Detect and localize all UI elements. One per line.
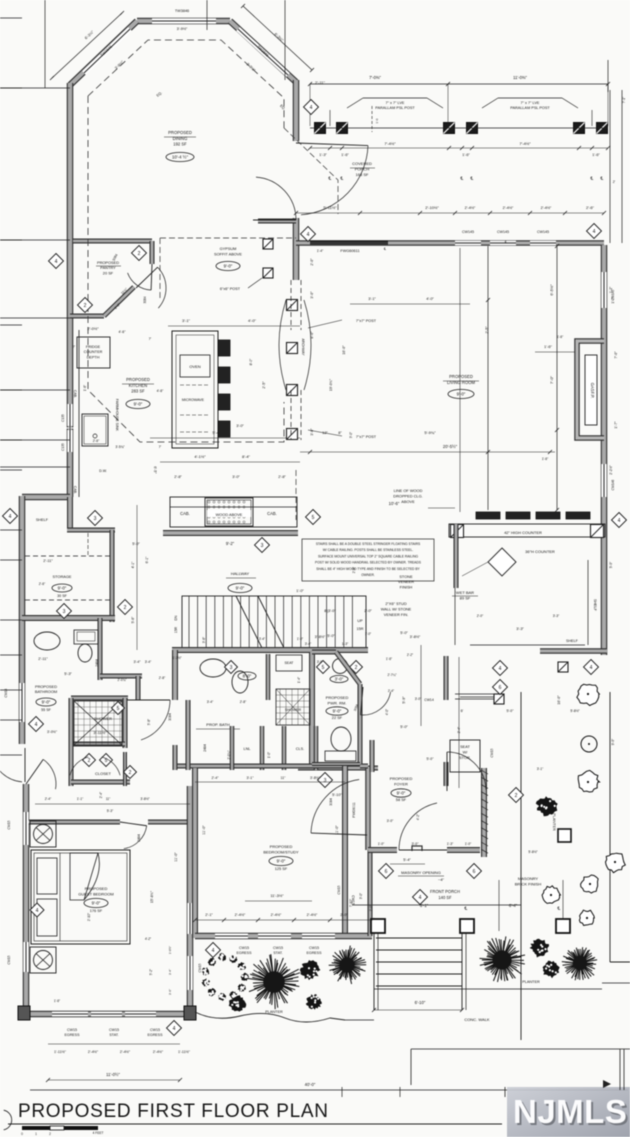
svg-text:9'-0": 9'-0" [224,264,233,269]
svg-text:3'-3": 3'-3" [516,627,524,631]
svg-text:6: 6 [473,869,476,875]
svg-text:COUNTER: COUNTER [84,350,103,354]
svg-text:125 SF: 125 SF [275,866,288,871]
svg-text:36"H COUNTER: 36"H COUNTER [525,549,555,554]
svg-text:LINE OF WOOD: LINE OF WOOD [394,488,423,493]
svg-text:5'-8½": 5'-8½" [570,709,580,713]
svg-text:3'-6": 3'-6" [168,989,172,995]
svg-text:OVEN: OVEN [189,364,200,369]
svg-text:9'-0": 9'-0" [277,859,286,864]
svg-text:1'-3½": 1'-3½" [172,656,182,660]
svg-text:2'-4½": 2'-4½" [235,913,246,917]
svg-text:9'-0": 9'-0" [42,700,51,705]
svg-text:1'-6": 1'-6" [83,385,87,391]
svg-text:GUEST BEDROOM: GUEST BEDROOM [78,892,114,897]
svg-text:3'-4": 3'-4" [259,637,265,641]
svg-text:2'-6": 2'-6" [39,582,46,586]
svg-text:1'-0": 1'-0" [465,842,472,846]
svg-text:1'-11½": 1'-11½" [54,1050,67,1054]
svg-text:SOFFIT ABOVE: SOFFIT ABOVE [214,251,242,256]
svg-text:5'-9": 5'-9" [402,696,406,704]
svg-text:1'-4": 1'-4" [297,677,301,683]
svg-text:FRONT PORCH: FRONT PORCH [430,889,460,894]
svg-text:PWR. RM.: PWR. RM. [328,700,347,705]
svg-text:LIVING ROOM: LIVING ROOM [447,380,475,385]
svg-text:5'-3": 5'-3" [64,672,72,676]
svg-text:CW145: CW145 [497,230,509,234]
svg-text:CW15: CW15 [490,748,494,757]
svg-text:3'-0": 3'-0" [349,432,353,438]
svg-text:CW145: CW145 [537,230,549,234]
svg-text:5'-8½": 5'-8½" [528,850,538,854]
svg-text:LNL: LNL [244,747,251,751]
svg-text:2'-8": 2'-8" [174,475,182,479]
svg-text:MASONRY: MASONRY [518,876,538,881]
svg-text:7"x7" POST: 7"x7" POST [356,319,377,323]
svg-text:2: 2 [515,793,518,799]
svg-text:PROPOSED: PROPOSED [270,844,293,849]
svg-text:20 SF: 20 SF [103,270,114,275]
svg-text:STAT.: STAT. [273,951,282,955]
svg-text:7"x7" POST: 7"x7" POST [356,435,377,439]
svg-text:4: 4 [36,908,39,914]
svg-text:40'-0": 40'-0" [305,1082,316,1087]
svg-text:2'-4½": 2'-4½" [271,913,282,917]
svg-text:3'-0": 3'-0" [310,428,314,436]
svg-text:SHELF: SHELF [566,639,579,643]
svg-text:1'-6": 1'-6" [341,153,349,157]
svg-text:4'-0": 4'-0" [426,297,434,301]
svg-text:5'-0": 5'-0" [400,725,408,729]
svg-text:CW14: CW14 [424,698,434,702]
svg-text:TW3846: TW3846 [175,9,189,13]
svg-text:EGRESS: EGRESS [307,951,323,955]
svg-text:PORCH: PORCH [355,167,370,172]
svg-text:OWNER.: OWNER. [361,573,375,577]
svg-text:CLS.: CLS. [296,747,304,751]
svg-text:3'-8½": 3'-8½" [310,776,321,780]
svg-text:1'-0": 1'-0" [297,637,303,641]
svg-text:1'-0": 1'-0" [296,589,304,593]
svg-text:3'-4": 3'-4" [168,969,172,975]
svg-text:STORAGE: STORAGE [53,574,72,579]
svg-text:4: 4 [499,666,502,672]
svg-text:3'-0": 3'-0" [415,697,422,701]
svg-text:4'-6": 4'-6" [119,330,127,334]
svg-text:PROP. BATH: PROP. BATH [206,722,230,727]
svg-text:5'-8": 5'-8" [147,719,151,725]
svg-text:2: 2 [49,1132,51,1136]
svg-text:PROPOSED: PROPOSED [326,695,349,700]
svg-text:WALL W/ STONE: WALL W/ STONE [381,607,412,612]
svg-text:2: 2 [124,605,127,611]
svg-text:15'-8¾": 15'-8¾" [150,890,154,903]
svg-text:DINING: DINING [173,136,188,141]
svg-text:11'-0½": 11'-0½" [106,1072,120,1077]
svg-text:D.W.: D.W. [99,469,107,473]
svg-text:9'-0": 9'-0" [92,901,101,906]
svg-text:KITCHEN: KITCHEN [129,383,147,388]
svg-text:5: 5 [322,665,325,671]
svg-text:2'-4": 2'-4" [99,792,103,798]
svg-text:11'-0": 11'-0" [335,825,339,835]
svg-text:15R: 15R [174,626,178,633]
svg-text:CLOSET: CLOSET [95,771,112,776]
svg-text:CW15: CW15 [198,963,202,972]
svg-text:4'-2": 4'-2" [416,814,420,820]
svg-text:PLANTER: PLANTER [522,980,540,984]
svg-text:5'-4": 5'-4" [403,858,411,862]
svg-text:4'-6": 4'-6" [157,389,165,393]
svg-text:3'-4": 3'-4" [207,700,214,704]
svg-text:3'-3": 3'-3" [553,614,560,618]
svg-text:3'-0": 3'-0" [236,424,244,428]
svg-text:7" x 7" LVE: 7" x 7" LVE [521,101,540,105]
svg-text:15R: 15R [357,627,364,631]
svg-text:3084: 3084 [143,296,147,303]
svg-text:CW146: CW146 [611,479,615,490]
svg-text:2: 2 [88,758,91,764]
svg-text:5'-9¾": 5'-9¾" [424,430,436,435]
svg-text:7': 7' [73,345,76,349]
svg-text:FWG6011: FWG6011 [352,802,356,817]
svg-text:22 SF: 22 SF [332,715,343,720]
svg-text:2'-4": 2'-4" [388,689,394,693]
svg-text:192 SF: 192 SF [173,142,187,147]
svg-text:1'-6": 1'-6" [542,457,549,461]
svg-text:3'-0": 3'-0" [310,291,314,299]
svg-text:9'-0": 9'-0" [611,738,615,745]
svg-text:2'-11": 2'-11" [315,80,325,85]
svg-text:5'-3": 5'-3" [107,809,114,813]
svg-text:3'-5¾": 3'-5¾" [115,445,125,449]
svg-text:16'-0": 16'-0" [557,695,561,705]
svg-text:8'|3'-0": 8'|3'-0" [324,609,336,613]
svg-text:6: 6 [385,869,388,875]
svg-text:2484: 2484 [95,659,99,667]
svg-text:2484: 2484 [137,834,141,842]
svg-text:4: 4 [212,948,215,954]
svg-text:1'-4": 1'-4" [317,249,324,253]
svg-text:6': 6' [461,709,464,713]
svg-text:6'-4": 6'-4" [509,903,518,908]
svg-text:168 SF: 168 SF [356,172,369,177]
svg-text:HALLWAY: HALLWAY [231,571,250,576]
svg-text:FARMHOUSE SINK: FARMHOUSE SINK [115,399,119,432]
svg-text:GYPSUM: GYPSUM [220,246,237,251]
svg-text:5'-6": 5'-6" [131,616,135,624]
svg-text:8'-0": 8'-0" [310,331,314,339]
svg-text:SHELF: SHELF [36,518,49,522]
svg-text:DN: DN [174,615,178,620]
svg-text:1'-7": 1'-7" [614,421,618,429]
svg-text:SHOWER: SHOWER [285,708,302,712]
svg-text:2'-0¾": 2'-0¾" [117,678,126,682]
svg-text:PLANTER: PLANTER [265,1010,283,1014]
svg-text:9'-0": 9'-0" [397,791,406,796]
svg-text:2'-0": 2'-0" [310,258,314,266]
svg-text:CW145: CW145 [611,289,615,300]
svg-text:7'-4½": 7'-4½" [384,141,396,146]
svg-text:3'-11½": 3'-11½" [93,730,107,735]
svg-text:CAB.: CAB. [73,390,77,398]
svg-text:3'-9½": 3'-9½" [177,27,188,31]
svg-text:MASONRY OPENING: MASONRY OPENING [401,870,441,875]
svg-text:8'-0": 8'-0" [249,358,253,366]
svg-text:BRICK FINISH: BRICK FINISH [515,882,542,887]
svg-text:3'-0½": 3'-0½" [47,730,58,734]
svg-text:1'-0": 1'-0" [378,842,385,846]
svg-text:FINISH: FINISH [400,584,413,589]
svg-text:0: 0 [21,1132,23,1136]
svg-text:2'-4½": 2'-4½" [307,913,318,917]
svg-text:CW15: CW15 [150,1028,160,1032]
svg-text:PROPOSED: PROPOSED [168,130,192,135]
svg-text:7': 7' [149,337,152,341]
svg-text:9'-0": 9'-0" [58,586,67,591]
svg-text:3: 3 [324,778,327,784]
svg-text:2'-4½": 2'-4½" [541,206,552,210]
svg-text:5: 5 [312,515,315,521]
svg-text:2'-4": 2'-4" [45,797,52,801]
svg-text:CW145: CW145 [462,230,474,234]
svg-text:2'-0": 2'-0" [340,913,348,917]
svg-text:2'-8": 2'-8" [159,676,166,680]
svg-text:2'-10½": 2'-10½" [425,205,439,210]
svg-text:2'-1": 2'-1" [205,913,213,917]
svg-text:6"x6" POST: 6"x6" POST [220,287,241,291]
svg-text:2'-2½": 2'-2½" [609,464,613,474]
svg-text:11'-0": 11'-0" [174,852,178,862]
svg-text:BEDROOM/STUDY: BEDROOM/STUDY [263,850,299,855]
svg-text:3'-0": 3'-0" [317,660,324,664]
svg-text:STAIRS SHALL BE A DOUBLE STEEL: STAIRS SHALL BE A DOUBLE STEEL STRINGER … [316,542,421,546]
svg-text:7'-0": 7'-0" [549,375,554,384]
svg-text:3084: 3084 [329,798,333,806]
svg-text:3'-8½": 3'-8½" [140,797,150,801]
svg-text:30 SF: 30 SF [57,594,68,598]
svg-text:EGRESS: EGRESS [148,1033,164,1037]
svg-text:POST W/ SOLID WOOD HANDRAIL SE: POST W/ SOLID WOOD HANDRAIL SELECTED BY … [315,561,422,565]
svg-text:3: 3 [261,543,264,549]
svg-text:4: 4 [35,722,38,728]
svg-text:19'-0¾": 19'-0¾" [329,378,333,391]
svg-text:2'-5": 2'-5" [485,326,489,334]
svg-text:2'-4½": 2'-4½" [503,206,514,210]
svg-text:FWG60611: FWG60611 [340,249,359,253]
svg-text:1'-3": 1'-3" [342,642,349,646]
svg-text:PARALLAM PSL POST: PARALLAM PSL POST [375,106,415,110]
svg-text:4: 4 [419,895,422,901]
svg-text:5'-2": 5'-2" [149,969,153,975]
svg-text:5'-0": 5'-0" [609,561,613,568]
svg-text:4'-2": 4'-2" [145,937,151,941]
svg-text:2'-0¾": 2'-0¾" [227,750,231,759]
svg-text:6'-5½": 6'-5½" [549,284,554,296]
svg-text:7'-0": 7'-0" [614,351,618,359]
svg-text:4 FEET: 4 FEET [93,1131,104,1135]
svg-text:10'-4 ½": 10'-4 ½" [172,155,189,160]
svg-text:8'-4": 8'-4" [242,454,251,459]
svg-text:2'-0": 2'-0" [364,609,372,613]
svg-text:2: 2 [84,303,87,309]
svg-text:2'-8": 2'-8" [278,475,286,479]
svg-text:11'-0⅜": 11'-0⅜" [513,75,527,80]
svg-text:2'-11": 2'-11" [43,559,53,563]
svg-text:2'-10": 2'-10" [87,913,91,921]
svg-text:2'-2": 2'-2" [407,653,413,657]
svg-text:CAB.: CAB. [267,511,277,516]
svg-text:3'-8½": 3'-8½" [410,635,421,639]
svg-text:2"X6" STUD: 2"X6" STUD [385,601,407,606]
svg-text:C135: C135 [61,443,65,451]
svg-text:11": 11" [281,776,287,780]
svg-text:WOOD ABOVE: WOOD ABOVE [216,512,243,517]
svg-text:1'-0": 1'-0" [267,752,271,758]
svg-text:7': 7' [159,445,162,449]
svg-text:7" x 7" LVE: 7" x 7" LVE [386,101,405,105]
svg-text:1'-3": 1'-3" [319,153,327,157]
svg-text:W/ CABLE RAILING. POSTS SHALL: W/ CABLE RAILING. POSTS SHALL BE STAINLE… [323,548,414,552]
svg-text:CW15: CW15 [309,946,319,950]
svg-text:2'-0": 2'-0" [477,614,484,618]
svg-text:4'-1": 4'-1" [131,561,135,569]
svg-text:2'-6": 2'-6" [586,205,595,210]
svg-text:PLANTER: PLANTER [552,813,556,831]
svg-text:1: 1 [35,1132,37,1136]
svg-text:2'-4½": 2'-4½" [120,1050,131,1054]
svg-text:DEPTH: DEPTH [87,355,100,359]
svg-text:10'-6": 10'-6" [389,501,400,506]
svg-text:4: 4 [618,518,621,524]
svg-text:CAB.: CAB. [180,511,190,516]
svg-text:55 SF: 55 SF [41,708,52,712]
svg-text:3: 3 [63,609,66,615]
svg-text:4: 4 [173,1026,176,1032]
svg-text:4: 4 [307,232,310,238]
svg-text:NJMLS: NJMLS [513,1093,627,1130]
svg-text:F.P.: F.P. [590,392,595,399]
svg-text:PARALLAM PSL POST: PARALLAM PSL POST [510,106,550,110]
svg-text:2: 2 [355,665,358,671]
svg-text:MICROWAVE: MICROWAVE [182,398,205,402]
svg-text:8'-0": 8'-0" [243,674,252,679]
svg-text:3'-1": 3'-1" [368,297,376,301]
svg-text:2'-4½": 2'-4½" [465,206,476,210]
svg-text:2': 2' [613,180,616,184]
svg-text:SHALL BE 4" HIGH WOOD TYPE AND: SHALL BE 4" HIGH WOOD TYPE AND FINISH TO… [316,567,420,571]
svg-text:9'-0": 9'-0" [236,586,245,591]
svg-text:1'-3": 1'-3" [447,842,454,846]
svg-text:3: 3 [230,665,233,671]
svg-text:283 SF: 283 SF [131,389,145,394]
svg-text:3084: 3084 [168,713,172,721]
svg-text:4'-0": 4'-0" [385,709,389,715]
svg-text:1'-6": 1'-6" [544,344,553,349]
svg-text:4: 4 [593,229,596,235]
svg-text:2'-6": 2'-6" [93,439,100,443]
svg-text:7'-1": 7'-1" [622,97,626,103]
svg-text:1'-0": 1'-0" [365,632,371,636]
svg-text:20'-5½": 20'-5½" [443,444,458,449]
svg-text:3'-1": 3'-1" [537,767,544,771]
svg-text:PROPOSED: PROPOSED [449,374,473,379]
svg-text:UP: UP [357,619,363,623]
svg-text:COVERED: COVERED [352,161,372,166]
svg-text:5'-0": 5'-0" [400,631,408,635]
svg-text:1'-0: 1'-0 [375,118,379,123]
svg-text:1'-0½": 1'-0½" [168,946,172,954]
svg-text:2'-0½": 2'-0½" [87,326,99,331]
svg-text:2'-5": 2'-5" [262,381,266,389]
svg-text:CAB.: CAB. [73,486,77,494]
svg-text:2'-0": 2'-0" [369,905,373,911]
svg-text:2: 2 [138,251,141,257]
svg-text:CW15: CW15 [351,895,355,905]
svg-text:6: 6 [499,685,502,691]
svg-text:4: 4 [9,514,12,520]
svg-text:9'-0": 9'-0" [134,402,143,407]
svg-text:1'-6": 1'-6" [592,153,600,157]
svg-text:2484: 2484 [203,744,207,752]
svg-text:DROPPED CLG.: DROPPED CLG. [393,493,422,498]
svg-text:PROPOSED: PROPOSED [126,377,150,382]
svg-text:5'-0": 5'-0" [427,757,435,761]
svg-text:16'-0": 16'-0" [342,345,346,355]
svg-text:2'-4": 2'-4" [212,776,220,780]
svg-text:2'-8": 2'-8" [352,567,356,573]
svg-text:3'-4": 3'-4" [305,642,312,646]
svg-text:4: 4 [590,665,593,671]
svg-text:4'-0": 4'-0" [248,318,257,323]
svg-text:9'-2": 9'-2" [226,541,235,546]
svg-text:9'-0": 9'-0" [457,392,466,397]
svg-text:89 SF: 89 SF [460,596,471,601]
svg-text:CW15: CW15 [337,885,341,894]
svg-text:3'-0": 3'-0" [359,893,363,899]
svg-text:4: 4 [310,105,313,111]
svg-text:ABOVE: ABOVE [401,499,415,504]
svg-text:FRIDGE: FRIDGE [86,345,101,349]
svg-text:PROPOSED: PROPOSED [85,886,108,891]
svg-text:6'-5": 6'-5" [153,466,157,474]
svg-text:PROPOSED FIRST FLOOR PLAN: PROPOSED FIRST FLOOR PLAN [18,1101,329,1122]
svg-text:SHELF: SHELF [593,599,597,612]
svg-text:EGRESS: EGRESS [237,951,253,955]
svg-text:3'-0": 3'-0" [335,677,344,682]
svg-text:1'-6": 1'-6" [54,999,60,1003]
svg-text:1'-6": 1'-6" [557,335,564,339]
svg-text:5'-0": 5'-0" [132,542,140,546]
svg-text:CW15: CW15 [239,946,249,950]
svg-text:2'-4½": 2'-4½" [88,1050,99,1054]
svg-text:3'-1": 3'-1" [247,776,255,780]
svg-text:58 SF: 58 SF [396,797,407,802]
svg-text:4'-1½": 4'-1½" [194,454,206,459]
svg-text:SURFACE MOUNT UNIVERSAL TOP 2": SURFACE MOUNT UNIVERSAL TOP 2" SQUARE CA… [318,554,419,558]
svg-text:3: 3 [94,516,97,522]
svg-text:ARCHWAY: ARCHWAY [301,339,305,357]
svg-text:5'-0": 5'-0" [327,634,335,638]
svg-text:2'-8": 2'-8" [240,700,247,704]
svg-text:WET BAR: WET BAR [456,590,474,595]
svg-text:EGRESS: EGRESS [65,1033,81,1037]
svg-text:VENEER FIN.: VENEER FIN. [384,612,408,617]
svg-text:3'-4": 3'-4" [145,660,152,664]
svg-text:CW15: CW15 [7,955,11,964]
svg-text:PROPOSED: PROPOSED [390,776,413,781]
svg-text:3'-8½": 3'-8½" [315,635,326,639]
